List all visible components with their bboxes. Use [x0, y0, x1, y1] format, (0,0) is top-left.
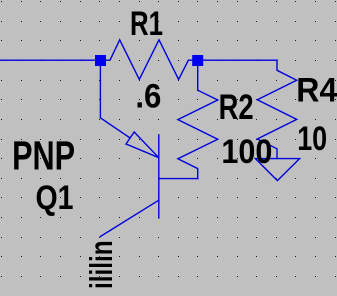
- svg-text:R4: R4: [296, 71, 337, 109]
- ground: [255, 159, 299, 181]
- emitter arrow: [126, 132, 159, 158]
- node junction J2: [192, 55, 203, 66]
- wire emitter diagonal: [100, 118, 130, 138]
- svg-text:10: 10: [297, 120, 327, 158]
- svg-text:R2: R2: [219, 87, 254, 127]
- resistor R1: [106, 40, 192, 80]
- wire emitter vertical: [99, 66, 101, 118]
- resistor R2: [178, 90, 218, 178]
- svg-text:ililin: ililin: [83, 240, 119, 289]
- svg-text:R1: R1: [130, 5, 163, 43]
- node junction J1: [95, 55, 106, 66]
- transistor Q1: [158, 135, 160, 218]
- wire top rail J2 to R4: [203, 59, 277, 61]
- wire left rail: [0, 59, 95, 61]
- svg-text:.6: .6: [135, 77, 161, 115]
- wire collector diagonal: [100, 200, 158, 236]
- svg-text:100: 100: [221, 133, 272, 171]
- resistor R4: [257, 60, 296, 158]
- wire R2 bottom to base: [159, 178, 198, 180]
- wire J2 down: [197, 66, 199, 90]
- svg-text:PNP: PNP: [12, 132, 75, 178]
- svg-text:Q1: Q1: [36, 179, 74, 217]
